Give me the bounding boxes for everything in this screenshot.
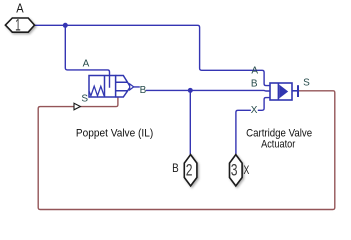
svg-text:X: X — [244, 165, 250, 177]
svg-text:S: S — [81, 93, 88, 104]
svg-text:X: X — [251, 105, 258, 116]
svg-text:Poppet Valve (IL): Poppet Valve (IL) — [76, 127, 153, 139]
svg-text:A: A — [16, 1, 24, 15]
svg-text:S: S — [303, 78, 310, 89]
svg-text:3: 3 — [231, 162, 238, 180]
svg-text:B: B — [251, 79, 258, 90]
svg-text:A: A — [83, 58, 90, 69]
svg-text:A: A — [251, 65, 258, 76]
svg-text:2: 2 — [186, 162, 193, 180]
svg-text:Actuator: Actuator — [261, 138, 295, 150]
svg-text:1: 1 — [15, 16, 21, 34]
svg-text:B: B — [140, 85, 147, 96]
svg-text:B: B — [172, 163, 179, 175]
